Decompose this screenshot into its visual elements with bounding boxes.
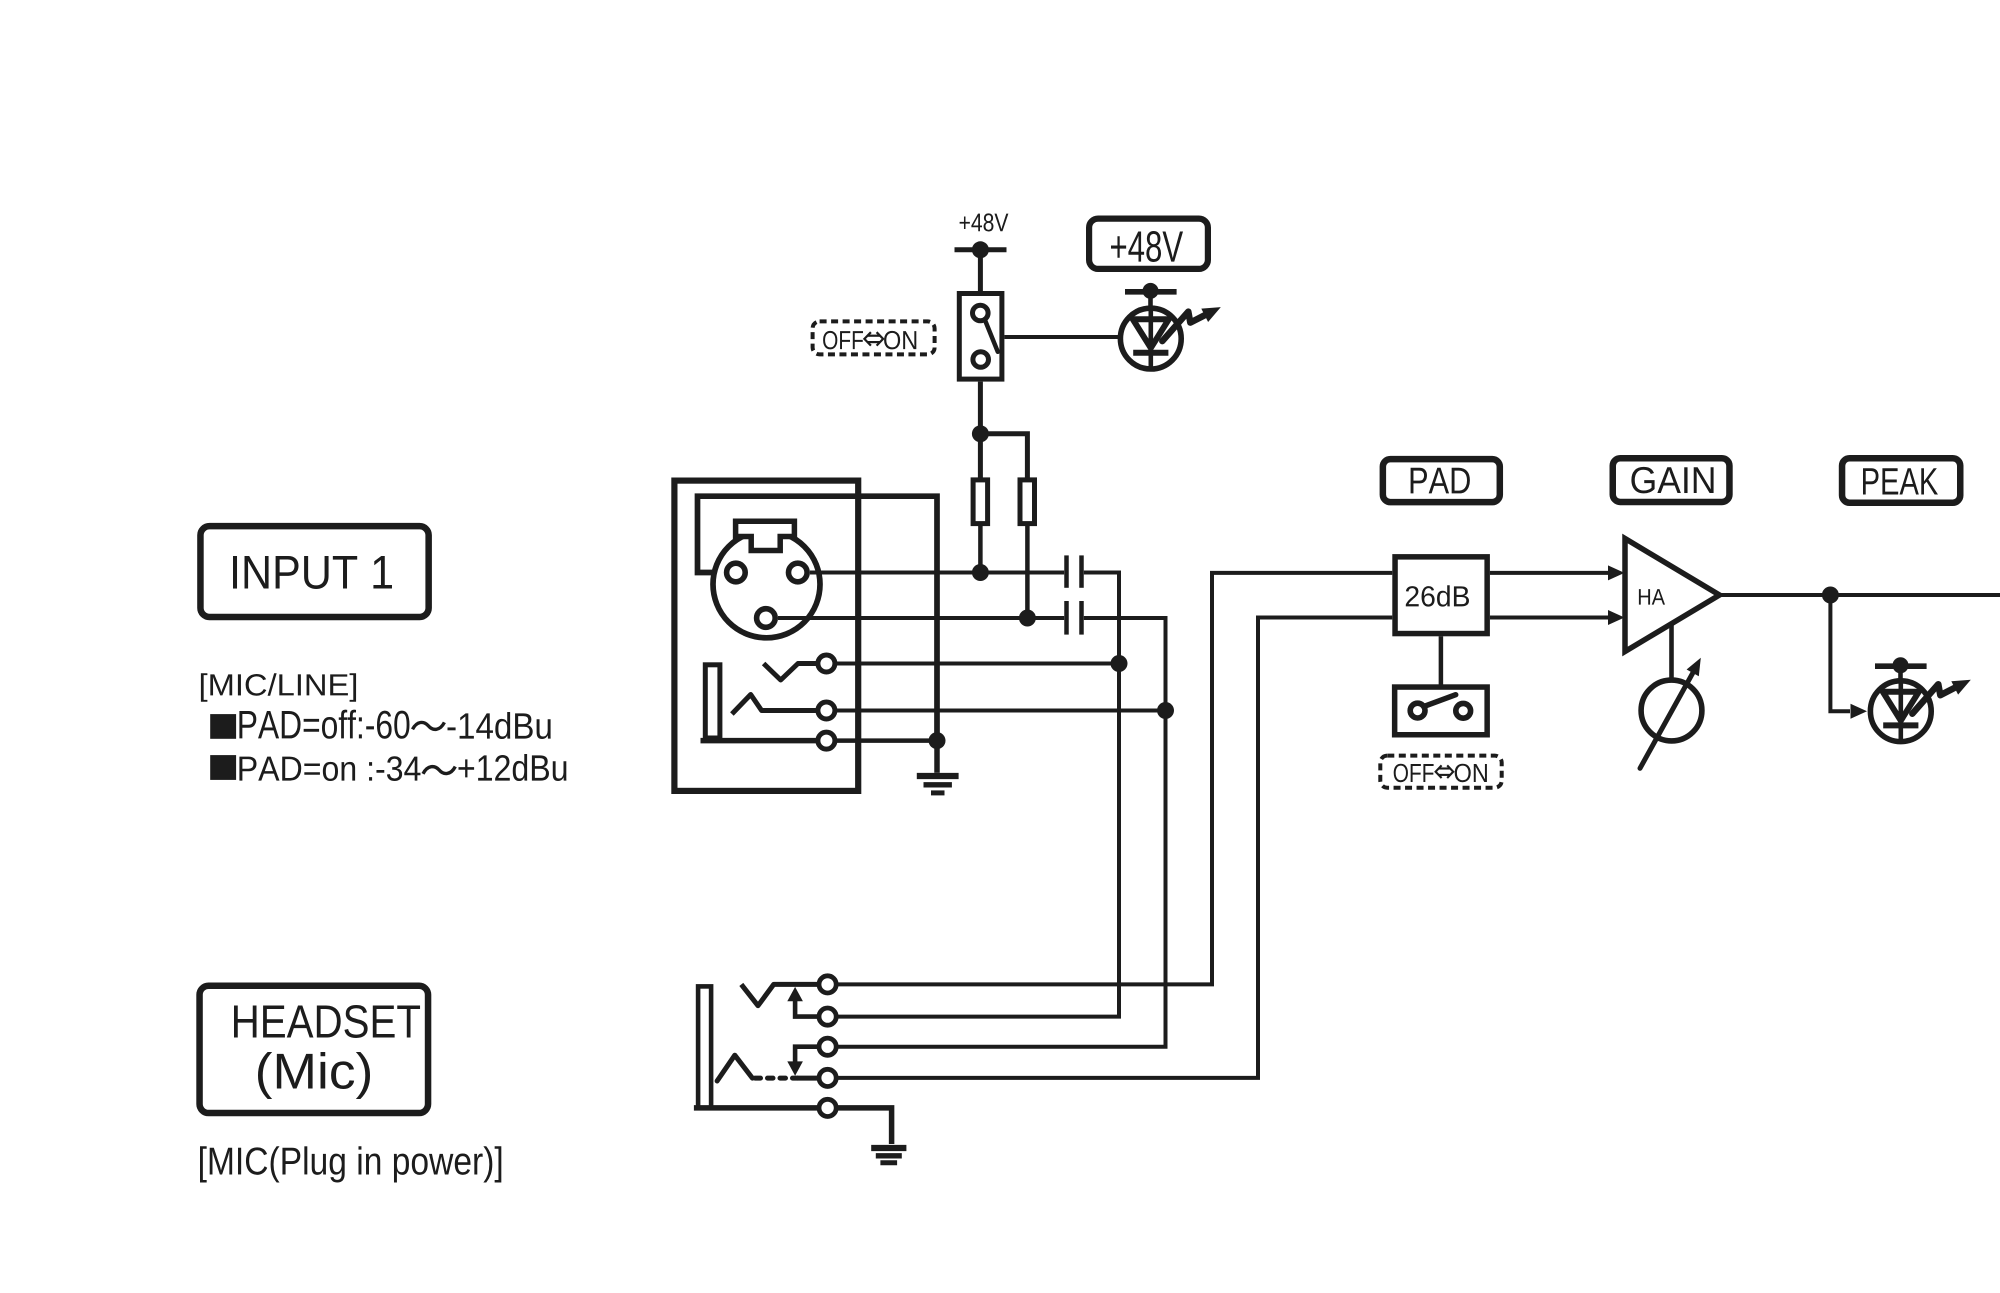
- headset jack terminal 3: [819, 1038, 836, 1055]
- note [MIC/LINE]: [201, 673, 356, 702]
- wire XLR pin1 shield route to ground: [698, 496, 938, 740]
- headset jack terminal 1: [819, 976, 836, 993]
- note MIC plug in power: [200, 1146, 501, 1182]
- combo jack sleeve bracket: [701, 665, 818, 741]
- wire cold line pin1 to capacitor C2: [778, 616, 1064, 620]
- node +48V supply label: [960, 213, 1009, 231]
- wire 26dB top output to HA: [1490, 565, 1625, 580]
- capacitor C1 (hot): [1067, 555, 1082, 587]
- junction node J1: [972, 425, 989, 442]
- headset link arrow up: [787, 987, 818, 1017]
- combo jack ring terminal: [818, 702, 835, 719]
- headset link arrow down: [787, 1047, 818, 1076]
- OFF/ON label for PAD switch: [1380, 756, 1501, 788]
- PEAK label box: [1842, 458, 1960, 503]
- wire switch to junction: [978, 382, 983, 434]
- junction R1/hot: [972, 564, 989, 581]
- +48V LED D1 indicator: [1120, 307, 1220, 369]
- combo jack tip switch contact: [764, 664, 818, 681]
- wire ring terminal to node B: [835, 702, 1174, 719]
- OFF/ON label for phantom switch: [813, 321, 935, 354]
- combo jack tip terminal: [818, 655, 835, 672]
- wire junction branch to R2: [980, 434, 1027, 478]
- op-amp HA head amplifier: [1625, 539, 1720, 652]
- INPUT 1 label box: [200, 526, 428, 617]
- note PAD=off level range: [210, 710, 550, 739]
- PAD label box: [1383, 459, 1500, 502]
- XLR pin 3: [789, 563, 808, 582]
- XLR pin 2: [727, 563, 746, 582]
- headset jack terminal 4: [819, 1069, 836, 1086]
- wire 26dB to PAD switch: [1439, 636, 1444, 686]
- wire switch to +48V LED: [1004, 335, 1121, 339]
- headset jack terminal 5: [819, 1099, 836, 1116]
- PAD switch SW2: [1395, 687, 1488, 735]
- ground symbol for combo connector: [917, 741, 959, 793]
- combo jack sleeve terminal: [818, 732, 835, 749]
- XLR female circle: [713, 531, 820, 638]
- junction HA output / peak branch: [1822, 587, 1839, 604]
- headset jack sleeve bracket: [694, 986, 819, 1108]
- wire C1 out down to headset contact 2: [837, 573, 1119, 1017]
- wire sleeve terminal to ground junction: [835, 732, 946, 749]
- wire C2 out down to headset contact 3: [837, 618, 1166, 1047]
- headset jack tip switch contact: [741, 984, 818, 1005]
- XLR pin 1: [757, 609, 776, 628]
- wire headset tip contact to PAD top input: [837, 573, 1393, 985]
- resistor R2: [1020, 480, 1035, 524]
- +48V power rail terminal: [955, 241, 1007, 258]
- power rail bar above PEAK LED D2: [1875, 657, 1927, 684]
- wire R2 to cold line: [1025, 526, 1030, 618]
- wire headset contact 4 to PAD bottom input: [837, 618, 1393, 1078]
- wire hot line pin3 to capacitor C1: [810, 571, 1064, 575]
- wire tip terminal to node A: [835, 655, 1128, 672]
- GAIN label box: [1613, 458, 1730, 502]
- resistor R1: [973, 480, 988, 524]
- wire HA output: [1720, 593, 2000, 597]
- phantom power switch SW1: [959, 294, 1002, 380]
- GAIN potentiometer: [1640, 625, 1702, 768]
- note PAD=on level range: [210, 754, 566, 781]
- headset jack ring switch contact with dotted link: [717, 1055, 819, 1081]
- wire peak branch to LED: [1830, 595, 1867, 719]
- ground symbol for headset jack: [871, 1148, 906, 1163]
- combo jack ring switch contact: [732, 695, 818, 715]
- wire rail to phantom switch: [978, 250, 983, 292]
- wire R1 to hot line: [978, 526, 983, 573]
- power rail bar above +48V LED D1: [1125, 283, 1177, 311]
- PAD attenuator 26dB box: [1395, 557, 1487, 634]
- wire 26dB bottom output to HA: [1490, 610, 1625, 625]
- capacitor C2 (cold): [1067, 601, 1082, 635]
- headset jack terminal 2: [819, 1008, 836, 1025]
- wire junction to R1: [978, 434, 983, 478]
- wire headset sleeve to ground: [837, 1108, 892, 1144]
- +48V label box: [1089, 219, 1208, 269]
- INPUT 1 combo connector outer box: [674, 481, 858, 791]
- HEADSET (Mic) label box: [200, 986, 428, 1113]
- PEAK LED D2 indicator: [1870, 680, 1970, 742]
- XLR latch tab: [736, 521, 795, 550]
- junction R2/cold: [1019, 610, 1036, 627]
